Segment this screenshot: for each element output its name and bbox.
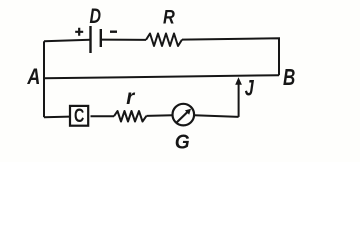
wire <box>101 39 146 41</box>
wire <box>147 114 173 117</box>
wire <box>91 115 115 117</box>
wire <box>194 115 238 117</box>
jockey J arrow <box>235 76 254 117</box>
svg-text:B: B <box>283 64 295 90</box>
svg-text:R: R <box>163 7 175 28</box>
cell C <box>70 106 88 127</box>
svg-text:A: A <box>27 64 41 89</box>
svg-text:D: D <box>90 5 102 28</box>
svg-text:G: G <box>175 131 190 154</box>
svg-text:J: J <box>245 76 255 101</box>
wire <box>44 116 70 119</box>
galvanometer G <box>173 104 195 154</box>
wire <box>43 41 45 117</box>
resistor R <box>146 7 182 46</box>
svg-text:C: C <box>74 106 84 127</box>
battery D <box>75 5 117 53</box>
wire <box>44 40 90 42</box>
svg-text:r: r <box>126 86 136 109</box>
resistor r <box>114 86 147 122</box>
wire <box>182 38 279 75</box>
wire A to B <box>44 75 280 78</box>
